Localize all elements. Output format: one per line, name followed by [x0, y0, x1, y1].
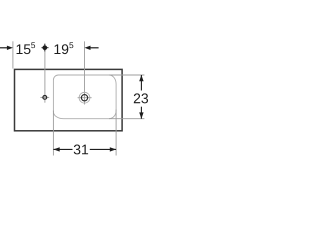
31 dimension line right segment [90, 148, 116, 150]
extension line from tap hole centre (x=44.9) [44, 43, 46, 102]
dimension chain dot marker at tap hole extension [42, 45, 47, 50]
drain outer circle [79, 92, 90, 103]
left extension line of 31 dimension (basin left edge extended) [52, 111, 54, 156]
tap hole circle [43, 96, 47, 100]
tap hole crosshair horizontal tick [40, 96, 49, 98]
extension line from product left edge (x=12.9) [12, 41, 14, 68]
label 15.5 superscript [31, 42, 35, 48]
bottom extension line of 23 dimension (basin bottom edge extended) [109, 118, 144, 120]
right extension line of 31 dimension (basin right edge extended) [115, 110, 117, 156]
31 dimension line left segment [53, 148, 72, 150]
dot marker horizontal tick [42, 47, 49, 49]
top dimension line left tail [0, 47, 9, 49]
top extension line of 23 dimension (basin top edge extended) [109, 74, 144, 76]
label 19.5 [54, 44, 60, 54]
drain inner circle [81, 95, 87, 101]
23 dimension line upper segment [140, 75, 142, 91]
extension line from drain centre (x=84.5) [84, 41, 86, 104]
31 dimension right arrowhead (points right) [110, 147, 116, 151]
basin inner bowl outline [53, 75, 116, 119]
23 dimension bottom arrowhead (points down) [139, 112, 143, 118]
top dimension left arrowhead (points right at x=12.9) [7, 46, 13, 50]
label 23 [134, 93, 140, 103]
31 dimension left arrowhead (points left) [53, 147, 59, 151]
dot marker vertical tick [44, 44, 46, 52]
label 31 [74, 145, 81, 155]
label 19.5 superscript [69, 42, 73, 48]
product outline (washbasin outer contour) [15, 69, 123, 130]
label 15.5 [17, 44, 23, 54]
top dimension right tail [89, 47, 99, 49]
top dimension right arrowhead (points left at x=84.5) [85, 46, 91, 50]
23 dimension top arrowhead (points up) [139, 75, 143, 81]
23 dimension line lower segment [140, 107, 142, 119]
drain crosshair horizontal tick [78, 97, 92, 99]
